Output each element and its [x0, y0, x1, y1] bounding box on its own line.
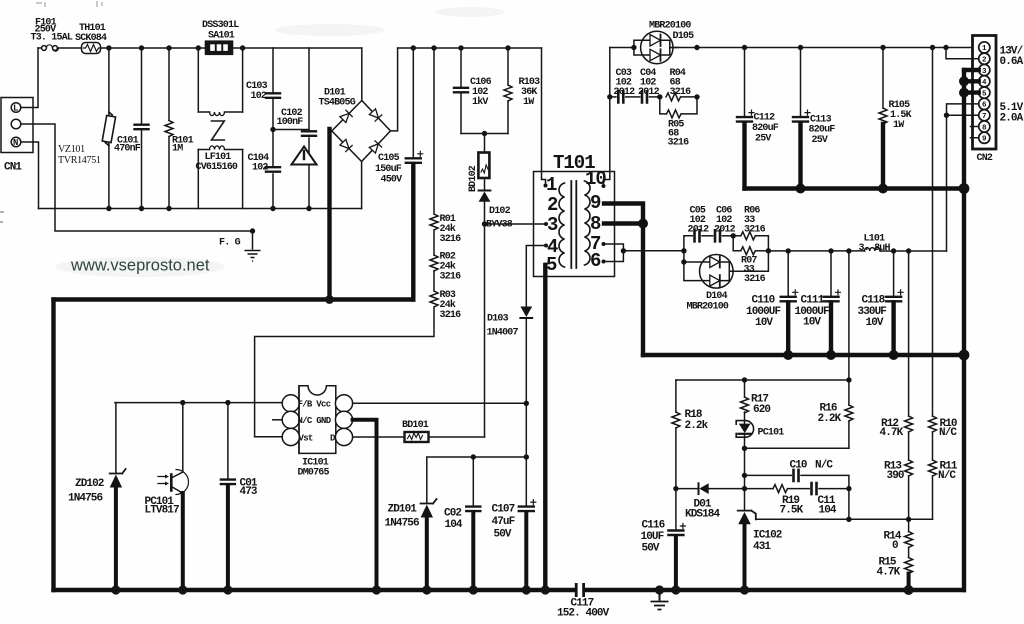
T101 primary winding arcs [559, 183, 565, 267]
wire N pin to bottom rail [21, 142, 39, 209]
wire R03 to Vst [255, 307, 434, 437]
svg-text:3216: 3216 [670, 87, 692, 98]
junction (182.8,402.6) [180, 400, 185, 405]
svg-text:SCK084: SCK084 [75, 33, 107, 44]
svg-text:8: 8 [982, 124, 987, 132]
connector CN1 [1, 98, 33, 153]
svg-text:5: 5 [546, 254, 557, 276]
resistor R16 [848, 380, 850, 405]
junction (848.9,519.3) [846, 517, 851, 522]
junction (788.2,355) [783, 350, 793, 360]
wire C103/C104 midpoint to C102 [273, 129, 309, 131]
svg-text:450V: 450V [381, 175, 403, 186]
wire SA101 left leg [197, 48, 199, 112]
wire C02 lead [472, 457, 474, 506]
junction (108.9,208.5) [106, 206, 111, 211]
junction (744.5,380) [742, 377, 747, 382]
svg-text:820uF: 820uF [752, 123, 779, 134]
wire Vcc to D103 line [353, 402, 527, 404]
svg-text:1N4007: 1N4007 [487, 328, 519, 339]
svg-text:C116: C116 [642, 520, 665, 532]
wire snubber to BD102 [484, 134, 486, 153]
choke LF101 bottom winding [198, 149, 242, 151]
svg-text:SA101: SA101 [208, 31, 235, 42]
svg-text:DM0765: DM0765 [298, 468, 330, 479]
wire drain line down to BD101 [484, 224, 486, 437]
capacitor C105 [412, 48, 414, 158]
varistor VZ101 [108, 48, 110, 209]
optocoupler PC101 phototransistor [182, 403, 184, 471]
svg-text:104: 104 [819, 505, 837, 517]
fusible resistor BD101 [405, 432, 429, 442]
wire pin6/7 node to snubber node A [623, 250, 684, 252]
wire 5V rail to L101 [768, 250, 864, 252]
svg-text:Vst: Vst [299, 434, 313, 444]
diode D01 [698, 483, 700, 494]
svg-text:4: 4 [982, 79, 987, 87]
svg-text:KDS184: KDS184 [685, 509, 721, 521]
junction (744.5,448.3) [742, 446, 747, 451]
svg-text:2012: 2012 [688, 225, 710, 236]
dual diode D105 MBR20100 [641, 31, 673, 63]
svg-text:50V: 50V [494, 529, 512, 541]
svg-text:10UF: 10UF [641, 531, 664, 543]
wire middle pin to F.G [21, 124, 253, 231]
svg-text:D103: D103 [487, 314, 509, 325]
wire D102 to T101 pin3 [485, 223, 547, 225]
svg-text:152. 400V: 152. 400V [557, 608, 610, 620]
svg-text:9: 9 [982, 136, 987, 144]
svg-text:1M: 1M [172, 144, 183, 155]
wire L101 out [880, 250, 946, 252]
thick C110 lead [786, 303, 790, 356]
resistor R04 [666, 93, 681, 101]
thick rail y355 [643, 353, 964, 357]
junction (484.5,133.5) [482, 131, 487, 136]
capacitor C107 [519, 500, 536, 512]
wire R16 bottom to PC101 cathode [745, 447, 849, 449]
thick PC101 emitter lead [181, 493, 185, 590]
svg-text:620: 620 [753, 404, 770, 416]
junction (609.8,96.9) [607, 94, 612, 99]
junction (603.5,186) [602, 184, 606, 188]
capacitor C103 [272, 48, 274, 166]
junction (376.5,590) [372, 585, 381, 594]
fusible resistor BD102 [478, 153, 489, 179]
svg-text:25V: 25V [755, 134, 771, 145]
svg-text:TS4B05G: TS4B05G [319, 98, 356, 109]
junction (675.9,488.6) [673, 486, 678, 491]
wire ref row y519 [756, 518, 933, 520]
bridge diode bottom-right [369, 141, 382, 154]
thick C116 lead [674, 536, 678, 590]
capacitor C113 [800, 48, 802, 117]
svg-text:1: 1 [546, 174, 557, 196]
wire R10/R11 sense line from 13V [932, 48, 934, 417]
F.G ground symbol [245, 231, 261, 261]
junction (633.9,47.5) [631, 45, 636, 50]
wire [433, 230, 435, 255]
thick 13V ground rail [745, 123, 965, 189]
thick pin4 stub [964, 79, 979, 83]
svg-text:C107: C107 [492, 504, 515, 516]
resistor chain feed wire [433, 48, 435, 214]
thick C107 lead [524, 512, 528, 590]
svg-text:102: 102 [251, 91, 267, 102]
wire choke left leg down [197, 150, 199, 209]
choke core Z symbol [212, 121, 225, 140]
T101 secondary winding arcs [585, 181, 591, 265]
thick bus vertical [962, 70, 966, 590]
svg-text:8: 8 [590, 213, 601, 235]
svg-text:N/C: N/C [939, 427, 957, 439]
svg-text:C112: C112 [754, 113, 776, 124]
svg-text:T3. 15AL: T3. 15AL [31, 33, 73, 44]
junction dots HV [411, 45, 511, 226]
diode D103 [520, 307, 532, 318]
thick C112 lead [742, 123, 746, 189]
thick 5V ground rail [643, 303, 964, 356]
svg-text:3216: 3216 [668, 138, 690, 149]
resistor R101 [168, 48, 170, 209]
svg-text:F/B Vcc: F/B Vcc [298, 400, 331, 410]
IC101 pin circles [282, 395, 299, 412]
snubber C03 C04 R04 R05 row [610, 96, 616, 98]
svg-text:C02: C02 [444, 508, 461, 520]
junction (788.2,251) [786, 248, 791, 253]
svg-text:N/C: N/C [938, 470, 956, 482]
junction (744.5,47.5) [742, 45, 747, 50]
svg-text:LTV817: LTV817 [145, 505, 180, 517]
wire R16 branch down [848, 251, 850, 380]
svg-text:47uF: 47uF [492, 516, 515, 528]
resistor R103 [507, 48, 509, 134]
junction (683.9,250.8) [681, 248, 686, 253]
thick ZD101 lead [425, 518, 429, 591]
junction (800.5,188.5) [796, 184, 806, 194]
thick C105 lower lead [411, 164, 415, 300]
svg-text:2012: 2012 [638, 87, 660, 98]
T101 pin6 wire to junction [604, 251, 624, 262]
svg-text:3216: 3216 [440, 272, 462, 283]
svg-text:1N4756: 1N4756 [68, 493, 103, 505]
thick C111 lead [829, 303, 833, 356]
svg-text:BD101: BD101 [402, 420, 429, 431]
IC101 body [299, 386, 336, 454]
thick wire pin 5 down [543, 265, 547, 590]
svg-text:10V: 10V [803, 317, 821, 329]
svg-text:N/C: N/C [815, 460, 833, 472]
svg-text:4.7K: 4.7K [880, 427, 904, 439]
svg-text:6: 6 [982, 102, 987, 110]
junction (473.3,457) [471, 454, 476, 459]
svg-text:0: 0 [892, 540, 898, 552]
svg-text:7: 7 [982, 113, 987, 121]
capacitor C11 [812, 483, 817, 494]
svg-text:473: 473 [240, 486, 258, 498]
wire pin2 link [946, 48, 979, 59]
connector CN2 box [973, 36, 997, 150]
svg-text:MBR20100: MBR20100 [649, 21, 691, 32]
svg-text:150uF: 150uF [375, 164, 402, 175]
junction (16,107.5) [11, 103, 21, 113]
svg-text:820uF: 820uF [809, 125, 836, 136]
resistor R13 [905, 460, 913, 476]
capacitor C05 [695, 230, 700, 241]
bottom rail junction dots [111, 585, 550, 594]
svg-text:2012: 2012 [614, 87, 636, 98]
capacitor C101 [141, 48, 143, 209]
T101 pin7 wire to junction [604, 244, 624, 251]
wire bridge bottom to rail [361, 162, 363, 209]
spark arrester SA101 (DSS301L) [206, 42, 232, 55]
optocoupler PC101 LED [736, 421, 753, 438]
junction (526.3,403.3) [524, 401, 529, 406]
resistor R17 [744, 380, 746, 397]
junction (413.3,48) [411, 45, 416, 50]
wire C10 row [745, 474, 792, 476]
wire D pin to BD101 [353, 436, 404, 438]
svg-text:N: N [13, 138, 18, 148]
svg-text:6: 6 [590, 250, 601, 272]
T101 pin dots [544, 184, 627, 267]
svg-text:100nF: 100nF [277, 117, 304, 128]
wire feedback top rail [676, 379, 849, 381]
svg-text:10V: 10V [866, 317, 884, 329]
thick R15 lead [907, 574, 911, 591]
wire L pin to fuse [21, 48, 38, 108]
svg-text:9: 9 [590, 192, 601, 214]
common mode choke LF101 top winding [198, 111, 242, 113]
wire HV rail [398, 47, 542, 49]
resistor R02 [430, 255, 438, 271]
zener ZD101 [421, 499, 437, 504]
svg-text:2.0A: 2.0A [1000, 113, 1024, 125]
resistor R05 parallel loop [660, 97, 667, 114]
svg-text:N/C GND: N/C GND [298, 416, 332, 426]
svg-text:DSS301L: DSS301L [202, 20, 239, 31]
resistor R07 [733, 236, 741, 251]
capacitor C110 [787, 251, 789, 296]
resistor R105 [882, 48, 884, 109]
wire R19/C11 row [745, 488, 774, 490]
bridge diode top-left [340, 110, 353, 123]
svg-text:2012: 2012 [714, 225, 736, 236]
T101 pin10 wire up to D105 [604, 48, 610, 187]
junction (115.9,590) [111, 585, 120, 594]
svg-text:3216: 3216 [744, 225, 766, 236]
feedback labels [641, 394, 958, 579]
thick primary gnd rail [54, 297, 414, 301]
earth ground symbol [651, 590, 669, 610]
5V section labels [687, 206, 891, 330]
wire D103 vertical (pin4 aux) [526, 246, 546, 307]
wire bottom AC rail [39, 208, 362, 210]
thick wire pin 9 [604, 204, 643, 356]
svg-text:www.vseprosto.net: www.vseprosto.net [70, 257, 210, 275]
svg-text:3216: 3216 [440, 310, 462, 321]
svg-text:D102: D102 [489, 206, 511, 217]
T101 core lines [571, 181, 576, 268]
svg-text:1: 1 [982, 45, 987, 53]
diode D102 [484, 178, 486, 224]
capacitor C112 [744, 48, 746, 117]
svg-text:VZ101: VZ101 [58, 144, 85, 155]
svg-text:D104: D104 [706, 291, 728, 302]
svg-text:D105: D105 [673, 31, 695, 42]
svg-text:L: L [13, 104, 18, 114]
thick C02 lead [471, 512, 475, 590]
wire bridge plus corner up to HV rail [391, 48, 398, 131]
svg-text:3216: 3216 [440, 234, 462, 245]
thick CN2 ground bus [964, 70, 979, 590]
T101 labels [546, 152, 606, 276]
text labels HV [319, 77, 541, 339]
resistor R03 [430, 291, 438, 307]
wire C106/R103 bottom link [461, 133, 508, 135]
secondary labels [614, 21, 1024, 165]
wire choke right leg down [242, 150, 244, 209]
thick R105 lead [881, 124, 885, 189]
thick IC102 lead [743, 524, 747, 590]
capacitor C106 [460, 48, 462, 134]
svg-text:2: 2 [547, 194, 558, 216]
svg-text:BD102: BD102 [468, 165, 479, 192]
thick secondary wires pins 9/8 [545, 204, 643, 591]
svg-text:50V: 50V [642, 543, 660, 555]
svg-text:470nF: 470nF [114, 144, 141, 155]
secondary rail dots [607, 45, 949, 100]
feedback dots [671, 377, 913, 595]
capacitor C116 [675, 489, 677, 530]
junction (675.9,590) [671, 585, 680, 594]
IC101 junction dots [180, 400, 529, 460]
bottom left labels [68, 478, 610, 620]
capacitor C01 [227, 403, 229, 479]
wire SA101 right leg [242, 48, 244, 112]
svg-text:1W: 1W [893, 120, 904, 131]
junction (526.3,590) [522, 585, 531, 594]
capacitor C118 [893, 251, 895, 296]
fuse F101 [38, 47, 42, 49]
svg-text:2.2k: 2.2k [685, 420, 709, 432]
svg-text:4.7K: 4.7K [877, 567, 901, 579]
thick bottom rail right part [585, 588, 964, 592]
junction (932.5,47.5) [930, 45, 935, 50]
dual diode D104 MBR20100 [700, 254, 734, 288]
thick wire pin 8 [604, 221, 643, 225]
svg-text:CN1: CN1 [4, 162, 22, 174]
thick leads bottom left [116, 420, 526, 590]
thick pin3 stub [964, 68, 979, 72]
wire pin8 pin9 stubs [971, 127, 979, 138]
5V wire dots [681, 233, 911, 265]
wire ZD101/C02/C107 top link [427, 457, 527, 503]
svg-text:25V: 25V [812, 135, 828, 146]
thick pin5 stub [964, 90, 979, 94]
svg-text:C111: C111 [801, 295, 825, 307]
junction (108.9,48) [106, 45, 111, 50]
wire D01 row [676, 488, 698, 490]
capacitor C111 [830, 251, 832, 296]
svg-text:3216: 3216 [744, 274, 766, 285]
junction dots primary input [106, 45, 311, 211]
wire pin6/pin7 5V link [947, 104, 979, 251]
resistor R01 [430, 214, 438, 230]
svg-text:CV615160: CV615160 [196, 162, 238, 173]
svg-text:C110: C110 [752, 295, 775, 307]
svg-text:ZD101: ZD101 [388, 504, 418, 516]
CN2 pin circles [979, 42, 990, 144]
thick left border down [51, 300, 55, 591]
thick C01 lead [226, 485, 230, 590]
shunt regulator IC102 (431) [738, 511, 756, 520]
inductor L101 [865, 248, 881, 251]
svg-text:1N4756: 1N4756 [385, 518, 420, 530]
capacitor C117 (Y-cap in gnd rail) [576, 583, 583, 597]
svg-text:102: 102 [252, 163, 268, 174]
svg-text:MBR20100: MBR20100 [687, 302, 729, 313]
svg-text:390: 390 [887, 470, 904, 482]
svg-text:C118: C118 [862, 295, 886, 307]
thick rail y188 [745, 186, 965, 190]
wire Vst [255, 436, 283, 438]
CN2 pin numbers [982, 45, 987, 143]
svg-text:C105: C105 [378, 153, 400, 164]
IC101 labels [298, 400, 429, 479]
bridge diode bottom-left [340, 139, 353, 152]
svg-text:7.5K: 7.5K [780, 505, 804, 517]
junction (623.4,250.8) [621, 248, 626, 253]
svg-text:3. 8uH: 3. 8uH [859, 243, 891, 254]
resistor R18 [675, 380, 677, 412]
thick C113 lead [798, 123, 802, 189]
svg-text:C10: C10 [790, 460, 807, 472]
bridge rectifier D101 diamond [332, 101, 391, 162]
wire top AC rail [101, 47, 362, 49]
resistor R06 [733, 235, 741, 237]
capacitor C06 [715, 230, 720, 241]
svg-text:1W: 1W [523, 97, 534, 108]
junction (273,129.5) [270, 127, 275, 132]
svg-text:PC101: PC101 [758, 428, 785, 439]
svg-text:3: 3 [547, 214, 558, 236]
svg-text:IC102: IC102 [753, 530, 782, 542]
svg-text:10V: 10V [755, 317, 773, 329]
thick bottom rail left part [54, 588, 575, 592]
resistor R14 [908, 519, 910, 531]
warning triangle symbol [292, 147, 317, 165]
svg-text:CN2: CN2 [977, 153, 993, 164]
wire T101 pin1 from HV rail [542, 48, 546, 186]
svg-text:431: 431 [753, 541, 771, 553]
wire [433, 271, 435, 291]
zener ZD102 [115, 403, 117, 473]
resistor R19 [773, 485, 788, 493]
wire secondary top rail [610, 47, 978, 49]
svg-text:F. G: F. G [219, 238, 241, 249]
scan speckles [0, 1, 102, 222]
thick C118 lead [891, 303, 895, 356]
capacitor C104 [272, 174, 274, 209]
resistor R11 [929, 460, 937, 476]
capacitor C02 [466, 507, 480, 512]
bridge diode top-right [369, 109, 382, 122]
svg-text:5: 5 [982, 90, 987, 98]
wire R12 branch down [908, 251, 910, 416]
thick wire bridge minus down [327, 129, 331, 300]
capacitor C03 [618, 91, 623, 102]
